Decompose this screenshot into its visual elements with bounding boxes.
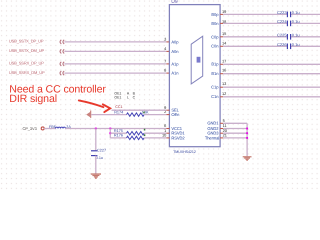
capacitor C225 [277,33,300,40]
wire B0p right of C223 [291,13,320,15]
resistor R175 [114,129,144,135]
svg-text:R175: R175 [114,129,123,133]
pin 14 stub [220,45,223,47]
IC U9 body [169,5,220,147]
svg-text:0.1u: 0.1u [292,10,300,15]
junction R branch [109,128,111,130]
svg-text:8: 8 [164,68,166,73]
wire B0n left of C224 [223,22,287,24]
pin 19 stub [220,13,223,15]
pin 2 stub [167,114,170,116]
svg-text:B1n: B1n [211,71,219,76]
pin 11 stub [220,128,223,130]
svg-text:CP_3V3: CP_3V3 [23,126,37,131]
svg-text:U9: U9 [171,0,178,5]
wire to R175 [110,132,126,134]
wire C1n [223,96,320,98]
annotation arrow [79,100,110,112]
vertical wire to C227 [95,129,97,151]
svg-text:C0n: C0n [211,44,219,49]
svg-text:C225: C225 [277,33,287,38]
junction GND3 [246,132,248,134]
svg-text:C0p: C0p [211,34,219,39]
svg-text:C226: C226 [277,42,287,47]
svg-text:USB_SSTX_DP_UP: USB_SSTX_DP_UP [9,39,44,44]
junction R175 [109,132,111,134]
svg-text:12: 12 [222,91,226,96]
pin 17 stub [220,63,223,65]
svg-text:C1n: C1n [211,94,219,99]
pin 7 stub [167,63,170,65]
svg-text:USB_SSRX_DP_UP: USB_SSRX_DP_UP [9,61,44,66]
svg-text:USB_SSTX_DM_UP: USB_SSTX_DM_UP [9,48,45,53]
svg-text:13: 13 [222,81,226,86]
off-page connector A0p [60,40,64,44]
junction GND2 [246,128,248,130]
resistor R176 [114,134,144,140]
svg-text:0.1u: 0.1u [292,42,300,47]
svg-text:USB_SSRX_DM_UP: USB_SSRX_DM_UP [9,70,45,75]
DRC marker R174 [143,112,145,114]
svg-text:B1p: B1p [211,62,219,67]
svg-text:A0p: A0p [171,39,179,44]
off-page connector A1n [60,71,64,75]
capacitor C226 [277,42,300,49]
wire B1p [223,63,320,65]
value 0 R175 [144,129,146,131]
svg-text:0.1u: 0.1u [292,19,300,24]
svg-text:CC1: CC1 [115,105,122,109]
wire GND1 [223,122,247,124]
svg-text:DIR signal: DIR signal [9,93,57,105]
wire B1n [223,73,320,75]
wire C0p left of C225 [223,36,287,38]
resistor R174 [114,110,149,116]
svg-text:FB6: FB6 [49,125,56,129]
svg-text:0.1u: 0.1u [292,33,300,38]
pin 9 stub [167,109,170,111]
svg-text:10K: 10K [142,110,149,114]
off-page connector CC1 (left arrow) [86,111,91,118]
wire A0n [64,50,166,52]
svg-text:3: 3 [164,36,166,41]
pin 20 stub [220,132,223,134]
value 0 R176 [144,134,146,136]
pin 13 stub [220,86,223,88]
wire A1p [64,63,166,65]
svg-text:B0p: B0p [211,12,219,17]
wire A0p [64,41,166,43]
wire C227 to ground [95,156,97,174]
capacitor C227 [91,148,106,160]
svg-text:A0n: A0n [171,49,179,54]
capacitor C224 [277,19,300,26]
pin 21 stub [220,137,223,139]
wire R175 to RSVD1 [144,132,166,134]
pin 3 stub [167,41,170,43]
svg-text:R174: R174 [114,111,123,115]
svg-text:19: 19 [222,9,226,14]
pin 5 stub [220,122,223,124]
wire GND3 [223,132,247,134]
wire B0p left of C223 [223,13,287,15]
svg-text:Thermal: Thermal [205,135,220,140]
pin 1 stub [167,132,170,134]
ferrite bead FB6 [49,125,71,129]
off-page connector A1p [60,62,64,66]
wire R176 to RSVD2 [144,137,166,139]
svg-text:C224: C224 [277,19,287,24]
svg-text:OEn: OEn [171,112,180,117]
svg-text:RSVD2: RSVD2 [171,135,185,140]
wire to R176 [110,137,126,139]
svg-text:A1p: A1p [171,61,179,66]
wire CC1 to SEL [112,109,167,111]
mux glyph [197,57,201,63]
background dot grid [0,0,320,191]
pin 6 stub [167,128,170,130]
svg-text:R176: R176 [114,134,123,138]
svg-text:17: 17 [222,58,226,63]
junction C227 branch [95,128,97,130]
svg-text:15: 15 [222,31,226,36]
pin 10 stub [167,137,170,139]
vertical wire to R175/R176 [109,129,111,138]
wire GND2 [223,128,247,130]
off-page connector A0n [60,49,64,53]
wire CP_3V3 to FB6 [44,128,55,130]
pin 4 stub [167,50,170,52]
svg-text:C1p: C1p [211,85,219,90]
svg-text:0.1u: 0.1u [96,156,103,160]
wire C0n left of C226 [223,45,287,47]
pin 12 stub [220,96,223,98]
wire Thermal [223,137,247,139]
ground bus vertical wire [246,123,248,156]
wire CC1 to R174 [91,114,126,116]
pin 8 stub [167,72,170,74]
svg-text:B0n: B0n [211,21,219,26]
wire C1p [223,86,320,88]
pin 16 stub [220,73,223,75]
junction Thermal [246,137,248,139]
svg-text:7: 7 [164,58,166,63]
svg-text:C223: C223 [277,10,287,15]
wire A1n [64,72,166,74]
wire R174 to OEn [144,114,166,116]
ground (GND bus) [243,156,252,161]
svg-text:16: 16 [222,68,226,73]
mux parallelogram [191,36,203,84]
ground (C227) [91,173,101,178]
wire B0n right of C224 [291,22,320,24]
pin 15 stub [220,36,223,38]
wire FB6 to VCC1 [66,128,167,130]
capacitor C223 [277,10,300,17]
svg-text:TMUXHS4212: TMUXHS4212 [173,150,196,154]
wire C0p right of C225 [291,36,320,38]
pin 18 stub [220,22,223,24]
svg-text:C227: C227 [97,148,106,152]
svg-text:A1n: A1n [171,71,179,76]
wire C0n right of C226 [291,45,320,47]
